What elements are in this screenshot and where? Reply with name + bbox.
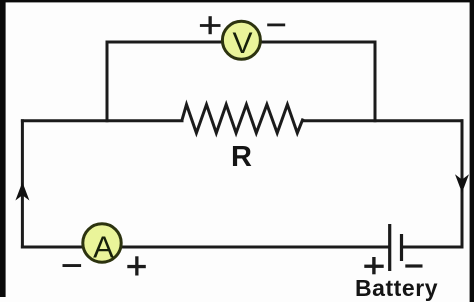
svg-text:V: V	[232, 27, 252, 60]
svg-text:A: A	[93, 230, 114, 265]
svg-text:R: R	[231, 141, 252, 173]
svg-text:Battery: Battery	[355, 275, 438, 301]
